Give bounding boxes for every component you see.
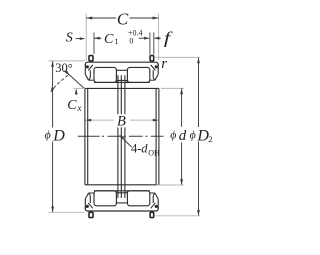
svg-text:C: C	[104, 32, 114, 47]
phi d top extension	[161, 87, 184, 89]
bore chamfer projection line far left	[84, 88, 86, 184]
svg-text:C: C	[117, 10, 129, 29]
svg-text:30°: 30°	[55, 61, 73, 75]
bore chamfer projection line far right	[158, 88, 160, 184]
C right extension line	[158, 14, 160, 61]
B dimension line	[85, 119, 113, 121]
C right arrowhead	[153, 17, 159, 20]
svg-text:4-: 4-	[131, 142, 141, 156]
svg-text:ϕ: ϕ	[190, 127, 196, 141]
phi d dimension line	[181, 88, 183, 126]
svg-text:1: 1	[114, 36, 118, 46]
C left extension line	[85, 14, 87, 62]
phi d bottom extension	[156, 184, 184, 186]
svg-text:OH: OH	[148, 148, 160, 157]
svg-text:0: 0	[129, 36, 133, 45]
svg-text:D: D	[52, 127, 65, 144]
phiD dimension line	[52, 61, 54, 127]
S arrow	[76, 38, 84, 40]
30 deg arc upper arrowhead	[65, 71, 70, 76]
phiD top arrowhead	[51, 61, 54, 67]
C dimension line	[86, 17, 116, 19]
phiD bottom extension	[49, 211, 85, 213]
B left arrowhead	[85, 119, 91, 122]
phiD bottom arrowhead	[51, 207, 54, 213]
svg-text:S: S	[66, 30, 73, 45]
oil hole line right	[124, 75, 126, 198]
C1 left extension line	[93, 33, 95, 55]
svg-text:x: x	[76, 104, 82, 114]
phi D2 dimension line	[198, 58, 200, 127]
svg-text:r: r	[161, 56, 167, 72]
phi D2 bottom arrowhead	[197, 210, 200, 216]
Cx extension line	[74, 87, 86, 89]
svg-text:ϕ: ϕ	[170, 127, 176, 141]
oil hole line left	[117, 75, 119, 198]
B right arrowhead	[153, 119, 159, 122]
C1 right extension line	[149, 33, 151, 55]
phiD top extension	[49, 60, 85, 62]
phi D2 bottom extension	[156, 215, 201, 217]
phi D2 top extension	[156, 56, 200, 58]
C1 right arrowhead	[144, 37, 150, 40]
white box behind B label	[114, 114, 130, 127]
centreline dash-dot	[78, 135, 100, 137]
phi d bottom arrowhead	[180, 179, 183, 185]
f arrow from right	[155, 37, 161, 39]
leader line	[121, 136, 132, 147]
svg-text:2: 2	[208, 134, 212, 144]
oil hole line centre	[120, 75, 122, 198]
f right extension line	[153, 33, 155, 55]
30 deg ray diagonal	[65, 71, 86, 90]
svg-text:B: B	[117, 114, 126, 130]
bore chamfer projection line right inner	[155, 88, 157, 184]
svg-text:C: C	[67, 98, 77, 113]
svg-text:d: d	[141, 142, 148, 156]
svg-text:d: d	[179, 128, 187, 144]
leader arrowhead	[119, 135, 124, 139]
C1 left arrowhead	[94, 37, 100, 40]
30 deg arc lower arrowhead	[51, 87, 55, 93]
C left arrowhead	[86, 17, 92, 20]
phi d top arrowhead	[180, 88, 183, 94]
30 deg arc dashed	[52, 75, 68, 91]
Cx up arrow	[75, 90, 77, 95]
bore chamfer projection line left inner	[87, 88, 89, 184]
phi D2 top arrowhead	[197, 57, 200, 63]
svg-text:ϕ: ϕ	[45, 127, 51, 141]
